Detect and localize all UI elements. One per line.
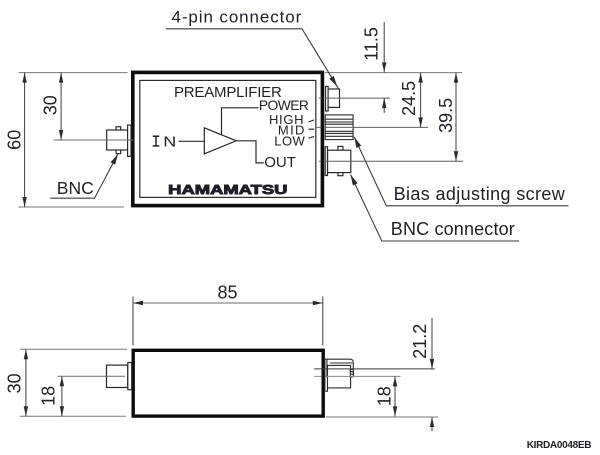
svg-text:18: 18 <box>38 386 58 406</box>
svg-text:HAMAMATSU: HAMAMATSU <box>168 182 287 197</box>
svg-text:30: 30 <box>4 373 24 393</box>
svg-text:11.5: 11.5 <box>362 27 382 61</box>
svg-text:60: 60 <box>5 130 25 150</box>
svg-text:24.5: 24.5 <box>399 81 419 116</box>
svg-text:BNC connector: BNC connector <box>391 219 515 239</box>
svg-text:LOW: LOW <box>274 133 305 148</box>
svg-text:21.2: 21.2 <box>410 324 430 359</box>
svg-text:KIRDA0048EB: KIRDA0048EB <box>527 440 592 451</box>
svg-text:POWER: POWER <box>259 98 309 113</box>
svg-text:BNC: BNC <box>57 178 94 198</box>
svg-text:30: 30 <box>41 95 61 115</box>
svg-text:18: 18 <box>374 386 394 406</box>
svg-text:85: 85 <box>217 283 237 303</box>
svg-text:39.5: 39.5 <box>436 98 456 133</box>
svg-text:Bias adjusting screw: Bias adjusting screw <box>394 184 566 204</box>
svg-text:N: N <box>163 133 176 150</box>
svg-text:4-pin connector: 4-pin connector <box>172 7 303 26</box>
svg-text:OUT: OUT <box>264 154 296 171</box>
